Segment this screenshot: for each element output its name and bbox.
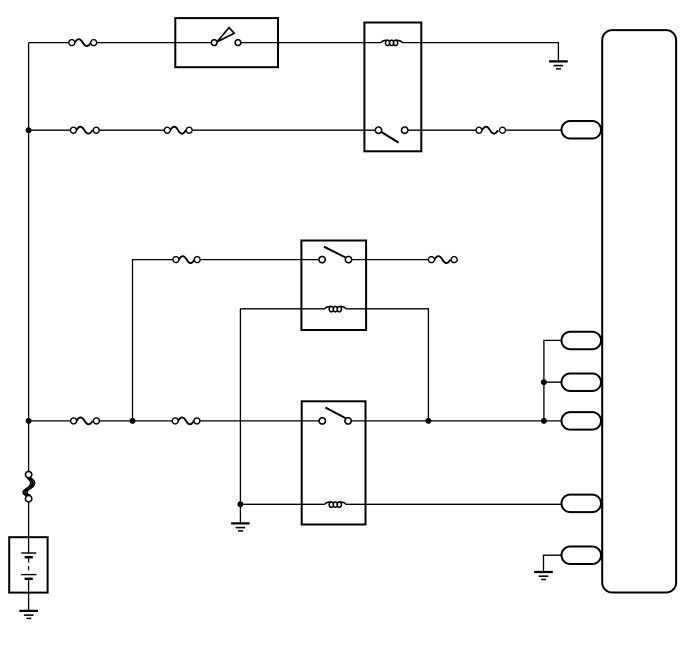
battery internal cells — [21, 537, 36, 610]
fuse F3 (row2 second) — [164, 127, 192, 134]
relay R2 coil — [325, 306, 345, 311]
node coil return junction on bus — [425, 418, 431, 424]
relay R3 coil — [325, 502, 345, 507]
fuse F7 (row5 left) — [71, 417, 100, 424]
wire relay R3 coil to connector pin — [345, 503, 561, 505]
ground G2 (battery) — [19, 611, 38, 619]
node row2 junction on left bus — [26, 127, 32, 133]
wire row5 fuse to relay R3 switch — [200, 420, 319, 422]
wire coil ground riser — [239, 309, 241, 523]
relay R2 switch contacts — [319, 247, 352, 263]
wire relay R2 coil right leg down to bus — [345, 309, 428, 421]
node pin branch junction middle — [541, 379, 547, 385]
fuse F1 (row1) — [69, 39, 97, 46]
connector pin A (row2) — [562, 121, 602, 139]
wire row2 between fuses — [99, 129, 164, 131]
wire row3 riser from bus — [133, 260, 173, 421]
wire ignition switch to relay R1 coil — [241, 42, 382, 44]
connector pin C (middle of group) — [562, 374, 602, 392]
wire row3 relay R2 to open fuse — [352, 259, 429, 261]
wire relay R2 coil left leg — [240, 308, 325, 310]
wire fusible link to battery — [28, 502, 30, 537]
relay R1 box — [364, 23, 421, 152]
node row5 riser junction — [130, 418, 136, 424]
wire row1 fuse to ignition switch — [97, 42, 212, 44]
ground G3 — [231, 523, 250, 531]
ignition switch contacts and lever — [211, 28, 241, 46]
fuse F6 (row3 right, open end) — [428, 256, 457, 263]
wire relay R3 coil row — [240, 503, 325, 505]
relay R1 coil — [381, 40, 401, 45]
ground G4 — [534, 572, 553, 580]
wire row2 fuse to connector pin — [506, 129, 562, 131]
wire left bus vertical — [28, 43, 30, 472]
relay R2 box — [301, 241, 366, 331]
wire row2 relay to fuse — [408, 129, 476, 131]
wire pin branch to middle pin — [544, 381, 562, 383]
fuse F2 (row2 left) — [70, 127, 99, 134]
connector pin D (row5) — [562, 412, 602, 430]
battery BAT box — [9, 537, 47, 592]
relay R1 switch contacts — [375, 127, 408, 143]
node relay R3 coil ground junction — [237, 501, 243, 507]
wire pin branch vertical — [544, 340, 562, 421]
fuse F8 (row5 second) — [172, 417, 200, 424]
relay R3 switch contacts — [319, 408, 351, 425]
node main bus left junction — [26, 418, 32, 424]
wire row5 start — [29, 420, 71, 422]
ground G1 — [549, 61, 568, 69]
wire R1 coil to ground — [402, 43, 559, 61]
fusible link FL1 — [23, 471, 34, 502]
wire row2 start — [29, 129, 71, 131]
wire pin F to ground — [544, 555, 562, 571]
relay R3 box — [302, 401, 366, 524]
node pin branch junction on bus — [541, 418, 547, 424]
wire row2 fuse to relay R1 switch — [192, 129, 375, 131]
fuse F5 (row3) — [173, 256, 200, 263]
module M1 (control unit) — [602, 30, 676, 592]
fuse F4 (row2 right) — [476, 127, 506, 134]
connector pin F (grounded) — [562, 547, 602, 565]
wire row5 relay R3 to connector pin — [351, 420, 561, 422]
connector pin B (top of group) — [562, 332, 602, 350]
wire row1 B+ to fuse — [29, 42, 69, 44]
wire row3 fuse to relay R2 switch — [200, 259, 319, 261]
wire row5 fuse to fuse — [99, 420, 172, 422]
ignition switch box SW1 — [175, 18, 278, 67]
connector pin E (relay R3 coil) — [562, 495, 602, 512]
